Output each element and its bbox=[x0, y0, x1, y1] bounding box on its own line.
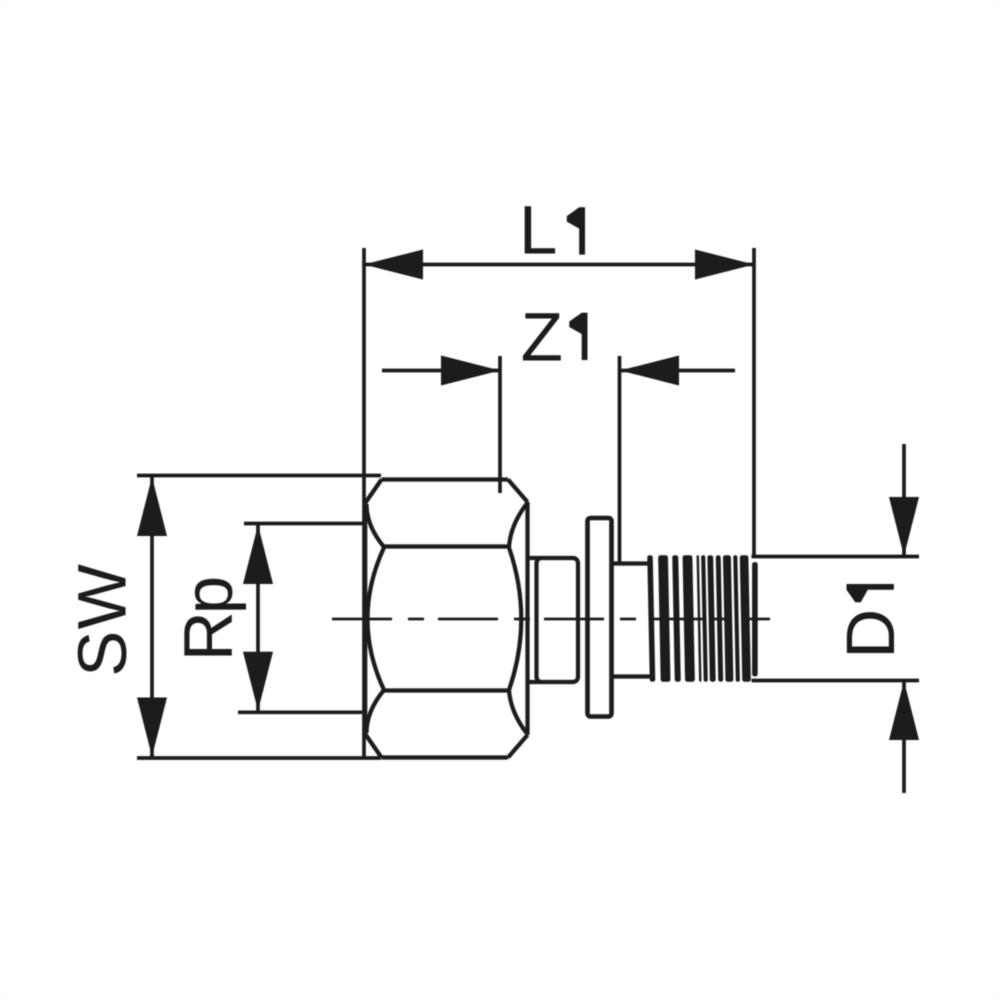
svg-text:Z: Z bbox=[521, 298, 563, 375]
svg-text:L: L bbox=[519, 192, 557, 269]
svg-text:W: W bbox=[63, 564, 140, 629]
svg-text:R: R bbox=[169, 611, 246, 661]
svg-text:S: S bbox=[64, 631, 141, 677]
svg-text:p: p bbox=[170, 576, 247, 614]
svg-text:D: D bbox=[832, 609, 909, 659]
